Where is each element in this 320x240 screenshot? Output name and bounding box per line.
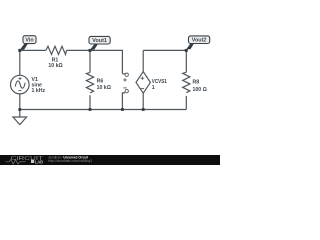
svg-text:http://circuitlab.com/cv64kq3: http://circuitlab.com/cv64kq3 <box>48 159 92 163</box>
ground <box>13 110 27 125</box>
svg-text:10 kΩ: 10 kΩ <box>48 63 62 69</box>
resistor R1 <box>46 46 67 54</box>
svg-text:Vout2: Vout2 <box>192 38 207 44</box>
VCVS1 control terminals <box>123 73 128 93</box>
wire R6 bottom to rail <box>89 95 91 109</box>
resistor R8 <box>183 72 190 93</box>
svg-text:10 kΩ: 10 kΩ <box>97 85 111 91</box>
wire jog to upper control terminal <box>122 73 125 75</box>
resistor R6 <box>86 72 93 93</box>
node Vin flag <box>18 36 36 52</box>
logo wire + LAB <box>6 160 26 164</box>
svg-text:LAB: LAB <box>35 159 43 164</box>
wire bottom rail <box>20 109 187 111</box>
svg-text:R6: R6 <box>97 78 104 84</box>
node Vout1 flag <box>89 36 111 52</box>
VCVS1 dependent source <box>136 72 150 94</box>
svg-text:1 kHz: 1 kHz <box>32 88 46 94</box>
footer bar <box>0 155 220 165</box>
wire top rail left segment (Vin node to VCVS control drop) <box>20 50 123 73</box>
wire left rail Vin node down to V1 <box>19 50 21 75</box>
voltage source V1 <box>10 75 29 94</box>
svg-text:Vout1: Vout1 <box>92 38 107 44</box>
wire Vout1 node down to R6 <box>89 50 91 72</box>
svg-text:100 Ω: 100 Ω <box>193 87 207 93</box>
wire V1 bottom to ground junction <box>19 94 21 110</box>
svg-text:Vin: Vin <box>25 38 33 44</box>
svg-text:1: 1 <box>152 85 155 91</box>
svg-text:R8: R8 <box>193 79 200 85</box>
node junction dots <box>18 108 144 111</box>
wire right column Vout2 node to R8 and R8 to rail <box>185 50 187 109</box>
wire lower control terminal to bottom rail <box>122 93 125 110</box>
wire top rail right segment (VCVS top to Vout2 node) <box>143 50 186 71</box>
wire VCVS bottom to rail <box>142 93 144 109</box>
node Vout2 flag <box>185 36 210 52</box>
